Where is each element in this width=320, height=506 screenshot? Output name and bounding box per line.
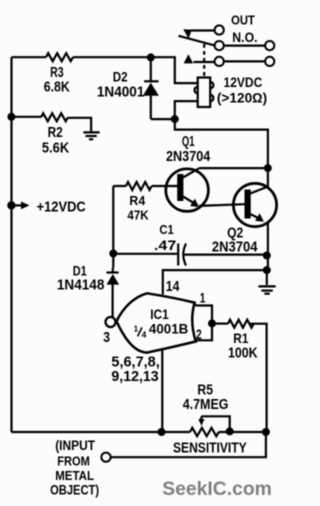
svg-text:FROM: FROM <box>57 454 90 469</box>
terminal: OUT N.O. <box>215 25 224 34</box>
svg-text:1: 1 <box>134 325 139 334</box>
wire: bottom rail <box>11 431 190 433</box>
wire: junction to R1 <box>212 323 228 325</box>
terminal: lower right <box>265 57 274 66</box>
svg-text:1: 1 <box>200 290 206 306</box>
svg-text:6.8K: 6.8K <box>44 79 70 96</box>
node: pins 1-2 / R1 junction <box>208 319 216 327</box>
svg-text:47K: 47K <box>127 208 148 222</box>
svg-text:2N3704: 2N3704 <box>166 148 211 165</box>
node: +12VDC tap on left rail <box>7 201 15 209</box>
wire: Q2 emitter rail down to ground node <box>267 223 269 271</box>
svg-text:SeekIC.com: SeekIC.com <box>162 479 271 500</box>
wire: R4 branch vertical to C1/D1 node <box>112 186 114 268</box>
transistor Q2 2N3704 <box>233 183 276 226</box>
net label: +12VDC arrow <box>15 204 22 206</box>
diode D2 1N4001 <box>150 57 152 80</box>
wire: pole terminal link <box>224 44 265 46</box>
wire: pin 1 to pin 2 tie <box>194 304 212 340</box>
wire: rail into Q2 collector <box>267 168 269 187</box>
svg-text:(INPUT: (INPUT <box>55 438 95 453</box>
wire: Q1 collector to right rail <box>199 167 268 169</box>
svg-text:D2: D2 <box>113 69 128 85</box>
node: gate pins junction on bottom rail <box>158 428 166 436</box>
svg-text:5.6K: 5.6K <box>42 140 69 157</box>
wire: rail to R2 <box>11 116 41 118</box>
relay armature <box>179 36 215 46</box>
node: C1 junction on R4 branch <box>109 250 117 258</box>
svg-text:1N4148: 1N4148 <box>57 277 105 294</box>
terminal: lower left <box>215 57 224 66</box>
resistor R1 100K <box>228 320 254 328</box>
wire: junction to right collector rail <box>175 119 268 168</box>
svg-text:100K: 100K <box>228 345 258 362</box>
resistor R4 47K <box>126 182 152 190</box>
op-amp U1: IC1 NOR gate output bubble (pin 3) <box>106 317 116 327</box>
dashed mechanical link armature to coil <box>203 44 205 78</box>
node: C1 / rail junction <box>263 252 271 260</box>
wire: R5 wiper to bottom rail <box>201 416 229 431</box>
wire: IC1 pin 14 feed <box>163 270 267 294</box>
resistor R3 6.8K <box>46 53 73 61</box>
svg-text:14: 14 <box>166 279 180 295</box>
node: D2 cathode junction on top rail <box>147 53 155 61</box>
svg-text:+12VDC: +12VDC <box>37 198 86 215</box>
wire: relay coil bottom lead <box>175 101 198 119</box>
svg-text:1N4001: 1N4001 <box>97 84 144 101</box>
wire: sensitivity line to right rail <box>111 432 266 457</box>
svg-text:METAL: METAL <box>55 468 94 483</box>
terminal: pole right <box>265 41 274 50</box>
capacitor C1 .47 <box>177 244 179 266</box>
wire: lower contact row <box>194 61 215 63</box>
svg-text:3: 3 <box>103 329 110 346</box>
ground (R2) <box>83 131 99 133</box>
svg-text:C1: C1 <box>159 223 173 237</box>
svg-text:(>120Ω): (>120Ω) <box>217 91 267 106</box>
svg-text:4.7MEG: 4.7MEG <box>183 397 229 413</box>
svg-text:2N3704: 2N3704 <box>212 240 258 256</box>
wire: N.O. contact to OUT terminal <box>191 29 214 31</box>
wire: node to C1 left plate <box>113 253 177 255</box>
svg-text:9,12,13: 9,12,13 <box>111 368 158 385</box>
wire: unused gate pins down to bottom rail <box>161 350 163 433</box>
node: R2 junction on left rail <box>7 113 15 121</box>
node: pin14 wire / rail junction <box>263 266 271 274</box>
op-amp U1: IC1 1/4 4001B gate body <box>117 293 196 352</box>
wire: lower terminal link <box>224 60 265 62</box>
terminal: pole left <box>215 41 224 50</box>
svg-text:OUT: OUT <box>231 13 255 28</box>
svg-text:4001B: 4001B <box>149 321 188 337</box>
wire: R1 down right side to bottom rail <box>250 324 267 432</box>
svg-text:R4: R4 <box>129 194 145 208</box>
wire: left +12VDC rail <box>10 57 12 432</box>
svg-text:.47: .47 <box>154 237 176 253</box>
relay coil K1 12VDC <box>198 78 211 108</box>
svg-text:SENSITIVITY: SENSITIVITY <box>173 440 247 456</box>
svg-text:N.O.: N.O. <box>232 30 257 45</box>
node: relay coil bottom junction <box>171 115 179 123</box>
resistor R5 4.7MEG potentiometer <box>190 428 219 436</box>
ground (Q2 emitter) <box>266 270 268 285</box>
node: Q1 collector / rail junction <box>264 164 272 172</box>
relay N.O. fixed contact triangle <box>183 29 192 39</box>
wire: top rail segment to R3 <box>12 56 47 58</box>
svg-text:4: 4 <box>142 329 147 339</box>
wire: bottom rail from R5 to right junction <box>219 431 267 433</box>
wire: D1 anode to IC1 pin 3 bubble <box>111 284 113 317</box>
R5 wiper arrow <box>200 416 202 420</box>
terminal: input probe circle <box>101 453 110 462</box>
resistor R2 5.6K <box>41 113 68 121</box>
transistor Q1 2N3704 <box>166 169 209 212</box>
svg-text:OBJECT): OBJECT) <box>50 483 99 498</box>
wire: R2 to ground <box>68 118 91 132</box>
svg-text:12VDC: 12VDC <box>224 75 263 90</box>
wire: R4 to Q1 base <box>152 185 178 187</box>
relay lower fixed contact triangle <box>184 54 194 63</box>
node: wiper junction on bottom rail <box>226 427 234 435</box>
wire: C1 right plate to rail <box>184 254 267 256</box>
wire: branch to R4 <box>113 185 126 187</box>
wire: D2 anode to coil-bottom junction <box>151 118 175 120</box>
diode D1 1N4148 <box>112 268 114 272</box>
node: bottom right junction <box>262 428 270 436</box>
wire: Q1 emitter to Q2 base <box>199 204 245 206</box>
wire: top rail from R3 to relay coil top <box>73 57 198 83</box>
